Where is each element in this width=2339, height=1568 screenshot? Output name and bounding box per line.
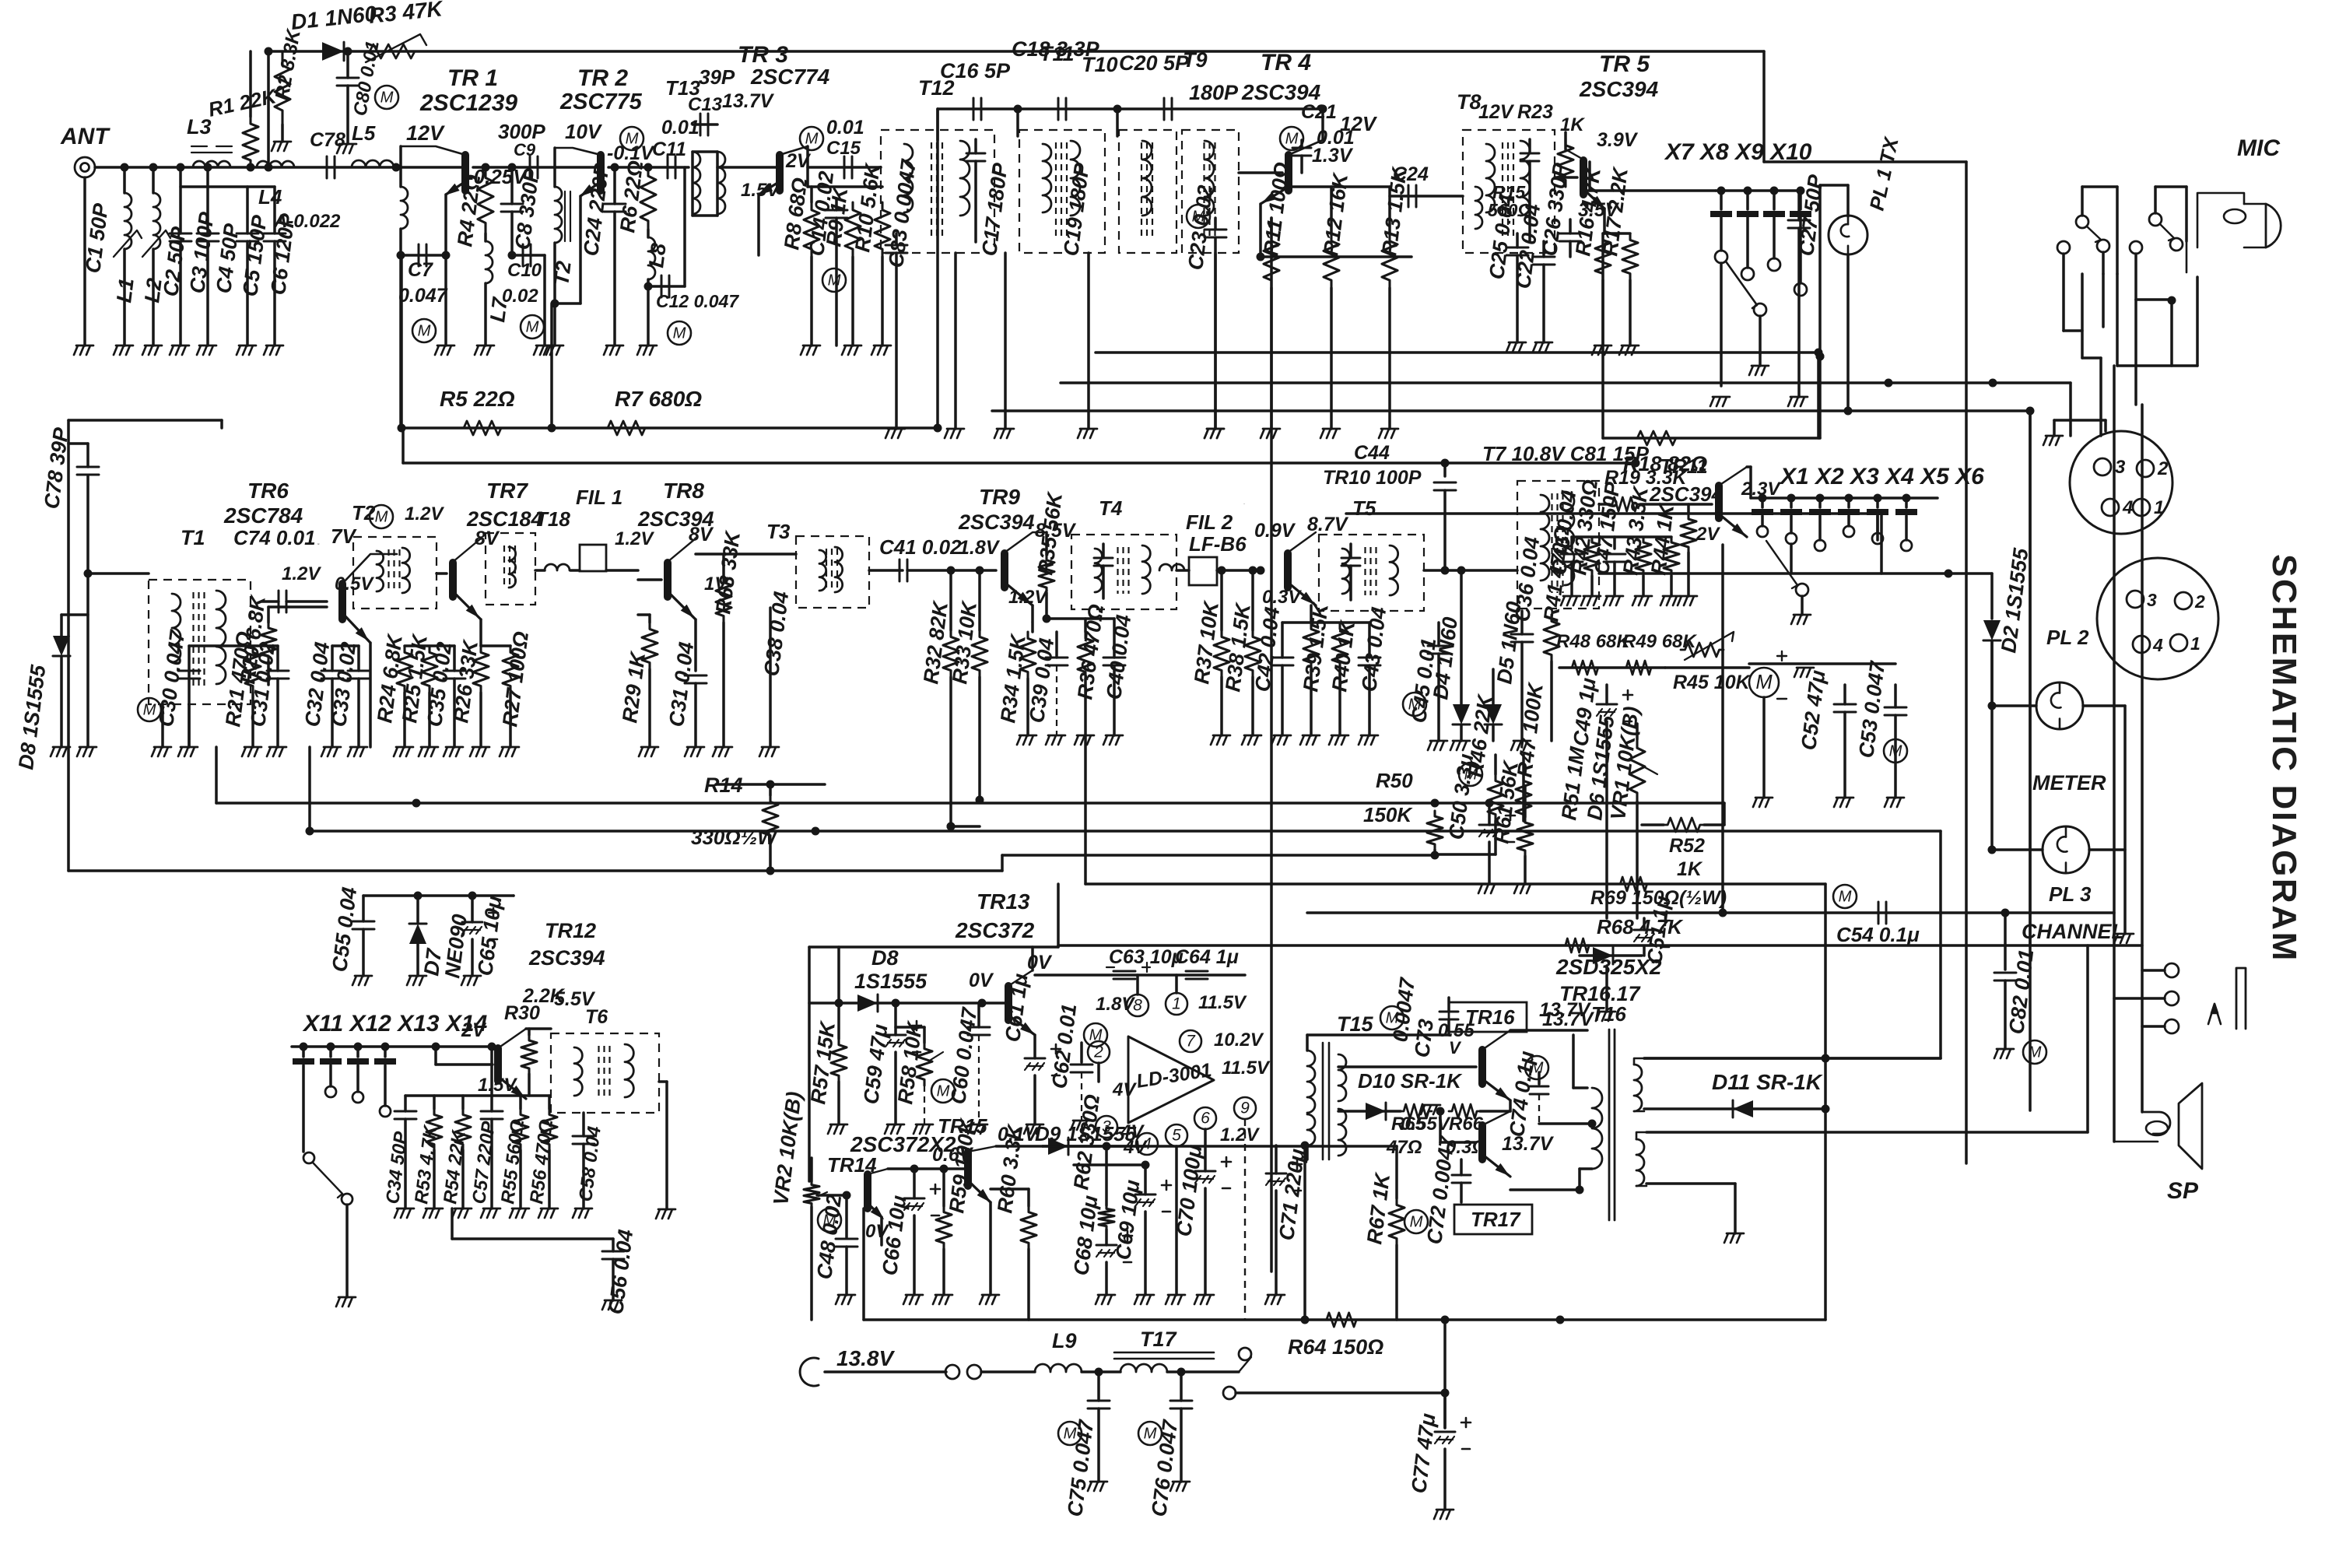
- svg-text:1K: 1K: [1677, 858, 1703, 880]
- svg-text:39P: 39P: [699, 65, 735, 89]
- svg-text:C9: C9: [514, 140, 536, 160]
- svg-text:1.5V: 1.5V: [478, 1075, 517, 1096]
- svg-text:0.01: 0.01: [826, 117, 864, 139]
- svg-text:M: M: [1889, 742, 1902, 759]
- svg-text:0.01: 0.01: [661, 117, 700, 139]
- svg-text:1K: 1K: [1560, 114, 1585, 135]
- svg-text:TR9: TR9: [979, 485, 1020, 509]
- svg-text:1.8V: 1.8V: [959, 537, 1001, 559]
- svg-text:PL 3: PL 3: [2049, 882, 2092, 906]
- svg-text:13.8V: 13.8V: [836, 1346, 895, 1370]
- svg-text:R68 4.7K: R68 4.7K: [1597, 915, 1684, 938]
- svg-text:LF-B6: LF-B6: [1189, 532, 1247, 556]
- svg-text:C41 0.02: C41 0.02: [879, 535, 962, 559]
- svg-text:TR 1: TR 1: [447, 65, 498, 91]
- svg-text:T8: T8: [1457, 90, 1482, 114]
- svg-text:2SC775: 2SC775: [559, 89, 643, 114]
- svg-text:D11 SR-1K: D11 SR-1K: [1712, 1070, 1823, 1094]
- svg-text:M: M: [673, 324, 686, 342]
- svg-text:0V: 0V: [969, 970, 994, 991]
- svg-text:METER: METER: [2032, 771, 2106, 795]
- svg-text:8V: 8V: [475, 528, 500, 549]
- svg-text:R48 68K: R48 68K: [1556, 631, 1631, 652]
- svg-text:6: 6: [1201, 1110, 1210, 1128]
- svg-text:T17: T17: [1140, 1328, 1178, 1351]
- svg-text:3: 3: [2115, 457, 2126, 478]
- svg-text:4: 4: [2122, 497, 2133, 518]
- svg-text:7: 7: [1186, 1033, 1196, 1051]
- svg-text:2: 2: [2194, 591, 2205, 612]
- svg-text:3.9V: 3.9V: [1597, 129, 1639, 151]
- svg-text:TR 4: TR 4: [1261, 50, 1311, 75]
- svg-text:1S1555: 1S1555: [854, 970, 928, 993]
- svg-text:2V: 2V: [461, 1019, 487, 1041]
- svg-text:TR6: TR6: [247, 479, 289, 503]
- svg-text:T2: T2: [352, 501, 376, 524]
- svg-text:TR8: TR8: [663, 479, 704, 503]
- svg-text:2SD325X2: 2SD325X2: [1555, 955, 1662, 979]
- svg-text:M: M: [1144, 1425, 1157, 1442]
- svg-text:C74 0.01: C74 0.01: [233, 526, 316, 549]
- svg-text:SCHEMATIC DIAGRAM: SCHEMATIC DIAGRAM: [2265, 554, 2303, 963]
- svg-text:R69 150Ω(½W): R69 150Ω(½W): [1590, 887, 1727, 909]
- svg-text:4: 4: [2152, 635, 2163, 655]
- svg-text:1.2V: 1.2V: [282, 563, 321, 584]
- svg-text:3: 3: [2147, 590, 2157, 610]
- svg-text:1.2V: 1.2V: [615, 528, 654, 549]
- svg-text:MIC: MIC: [2237, 135, 2281, 161]
- svg-text:10V: 10V: [565, 120, 603, 143]
- svg-text:150K: 150K: [1363, 803, 1413, 826]
- svg-text:L4: L4: [258, 185, 282, 209]
- svg-text:M: M: [526, 318, 539, 335]
- svg-text:0.9V: 0.9V: [1254, 520, 1296, 542]
- svg-text:0.5V: 0.5V: [335, 574, 374, 595]
- svg-text:47Ω: 47Ω: [1386, 1137, 1422, 1158]
- svg-text:D10 SR-1K: D10 SR-1K: [1358, 1069, 1463, 1093]
- svg-text:M: M: [1839, 888, 1852, 905]
- svg-text:M: M: [626, 130, 639, 147]
- svg-text:M: M: [1089, 1026, 1103, 1044]
- svg-text:R5 22Ω: R5 22Ω: [440, 387, 515, 411]
- svg-text:T7 10.8V C81 15P: T7 10.8V C81 15P: [1482, 442, 1650, 465]
- svg-text:2SC372: 2SC372: [955, 918, 1035, 942]
- svg-text:C16 5P: C16 5P: [940, 59, 1011, 82]
- svg-text:L3: L3: [187, 115, 212, 139]
- svg-text:FIL 1: FIL 1: [576, 486, 622, 509]
- svg-text:M: M: [805, 130, 819, 147]
- svg-text:1.2V: 1.2V: [1008, 587, 1048, 608]
- svg-text:0.02: 0.02: [502, 286, 538, 307]
- svg-text:L9: L9: [1052, 1329, 1077, 1352]
- svg-text:D8: D8: [871, 946, 899, 970]
- svg-text:M: M: [1192, 208, 1205, 225]
- svg-text:1.2V: 1.2V: [405, 503, 444, 524]
- svg-text:C63 10μ: C63 10μ: [1109, 946, 1184, 968]
- svg-text:R23: R23: [1517, 101, 1553, 123]
- svg-text:T15: T15: [1337, 1012, 1374, 1036]
- svg-text:10.2V: 10.2V: [1214, 1030, 1264, 1051]
- svg-text:2SC394: 2SC394: [528, 946, 605, 970]
- svg-text:2: 2: [2157, 458, 2169, 479]
- svg-text:2SC394: 2SC394: [958, 510, 1035, 534]
- svg-text:2V: 2V: [1696, 524, 1720, 545]
- svg-text:M: M: [418, 322, 431, 339]
- svg-text:0.047: 0.047: [398, 285, 448, 307]
- svg-text:4V: 4V: [1112, 1079, 1137, 1100]
- svg-text:PL 2: PL 2: [2046, 626, 2089, 649]
- svg-text:2SC394: 2SC394: [1579, 77, 1659, 101]
- svg-text:R14: R14: [704, 773, 743, 797]
- svg-text:TR17: TR17: [1471, 1208, 1521, 1231]
- svg-text:TR12: TR12: [545, 919, 596, 942]
- svg-text:L1: L1: [112, 277, 139, 304]
- svg-text:C12 0.047: C12 0.047: [656, 291, 739, 311]
- svg-text:M: M: [1285, 130, 1299, 147]
- svg-text:C10: C10: [507, 260, 542, 281]
- svg-text:TR16: TR16: [1465, 1005, 1515, 1029]
- svg-text:TR13: TR13: [977, 889, 1030, 914]
- svg-text:C24: C24: [1393, 163, 1429, 185]
- svg-text:M: M: [1410, 1213, 1423, 1230]
- svg-text:R7 680Ω: R7 680Ω: [615, 387, 702, 411]
- svg-text:TR 5: TR 5: [1599, 51, 1650, 77]
- svg-text:C78: C78: [310, 129, 345, 151]
- svg-text:T3: T3: [766, 520, 791, 543]
- svg-text:1: 1: [2190, 633, 2200, 654]
- svg-text:FIL 2: FIL 2: [1186, 510, 1233, 534]
- svg-text:2SC774: 2SC774: [750, 65, 830, 89]
- svg-text:C18 3.3P: C18 3.3P: [1012, 37, 1100, 61]
- svg-text:R52: R52: [1669, 835, 1705, 857]
- svg-text:C20 5P: C20 5P: [1119, 51, 1190, 75]
- svg-text:C13: C13: [688, 94, 723, 115]
- svg-text:CHANNEL: CHANNEL: [2022, 920, 2124, 943]
- svg-text:C73: C73: [1410, 1018, 1438, 1059]
- svg-text:0V: 0V: [1027, 952, 1053, 973]
- svg-text:T6: T6: [585, 1006, 608, 1028]
- svg-text:TR10 100P: TR10 100P: [1323, 467, 1422, 489]
- svg-text:X1 X2 X3 X4 X5 X6: X1 X2 X3 X4 X5 X6: [1779, 464, 1984, 489]
- svg-text:TR7: TR7: [486, 479, 528, 503]
- svg-text:R66: R66: [1449, 1114, 1484, 1135]
- svg-text:T2: T2: [549, 260, 576, 287]
- svg-text:M: M: [375, 508, 388, 525]
- svg-text:C44: C44: [1354, 442, 1390, 464]
- svg-text:SP: SP: [2167, 1178, 2199, 1204]
- svg-text:12V: 12V: [406, 121, 445, 145]
- svg-text:T16: T16: [1591, 1002, 1626, 1026]
- svg-text:TR 2: TR 2: [577, 65, 628, 91]
- svg-text:13.7V: 13.7V: [1542, 1009, 1595, 1030]
- svg-text:330Ω½W: 330Ω½W: [691, 826, 778, 849]
- svg-text:5: 5: [1172, 1127, 1181, 1145]
- svg-text:L8: L8: [644, 242, 671, 269]
- svg-text:8.7V: 8.7V: [1307, 514, 1349, 535]
- svg-text:0.3V: 0.3V: [1262, 587, 1302, 608]
- svg-text:2SC784: 2SC784: [223, 503, 303, 528]
- svg-text:2SC1239: 2SC1239: [419, 90, 517, 116]
- svg-text:V: V: [1449, 1038, 1462, 1058]
- svg-text:13.7V: 13.7V: [722, 90, 775, 112]
- svg-text:T18: T18: [535, 507, 570, 531]
- svg-text:1.2V: 1.2V: [1220, 1124, 1260, 1145]
- svg-text:180P: 180P: [1189, 81, 1239, 104]
- svg-text:M: M: [2029, 1044, 2042, 1061]
- svg-text:M: M: [1755, 672, 1773, 693]
- svg-text:1: 1: [2154, 497, 2164, 518]
- svg-text:1.8V: 1.8V: [1096, 994, 1135, 1015]
- svg-text:12V: 12V: [1478, 101, 1515, 123]
- svg-text:C54 0.1μ: C54 0.1μ: [1836, 923, 1920, 946]
- svg-text:2SC394: 2SC394: [1649, 482, 1723, 506]
- svg-text:C11: C11: [652, 139, 686, 160]
- svg-text:11.5V: 11.5V: [1222, 1058, 1271, 1079]
- svg-text:R50: R50: [1376, 769, 1413, 792]
- svg-text:11.5V: 11.5V: [1198, 992, 1247, 1013]
- svg-text:L5: L5: [352, 121, 376, 145]
- svg-text:TR11: TR11: [1660, 454, 1708, 478]
- svg-text:C64 1μ: C64 1μ: [1175, 946, 1239, 968]
- svg-text:R64 150Ω: R64 150Ω: [1288, 1335, 1383, 1359]
- svg-text:C21: C21: [1301, 101, 1337, 123]
- svg-text:560Ω: 560Ω: [1488, 200, 1531, 220]
- svg-text:X11 X12 X13 X14: X11 X12 X13 X14: [302, 1011, 488, 1037]
- svg-text:1.5V: 1.5V: [741, 180, 780, 201]
- svg-text:M: M: [380, 89, 394, 106]
- svg-text:C7: C7: [408, 259, 433, 281]
- svg-text:ANT: ANT: [60, 124, 110, 149]
- svg-text:0.55V: 0.55V: [1401, 1114, 1451, 1135]
- svg-text:8: 8: [1133, 997, 1142, 1015]
- svg-text:T5: T5: [1352, 496, 1376, 520]
- svg-text:9: 9: [1240, 1100, 1250, 1117]
- svg-text:T1: T1: [181, 526, 205, 549]
- svg-text:M: M: [828, 272, 841, 289]
- svg-text:T4: T4: [1099, 496, 1123, 520]
- svg-text:TR 3: TR 3: [738, 42, 788, 68]
- svg-text:1: 1: [1172, 995, 1181, 1013]
- svg-text:A-0.022: A-0.022: [273, 211, 341, 232]
- svg-text:0.01: 0.01: [1317, 127, 1355, 149]
- svg-text:R45 10K: R45 10K: [1673, 672, 1752, 693]
